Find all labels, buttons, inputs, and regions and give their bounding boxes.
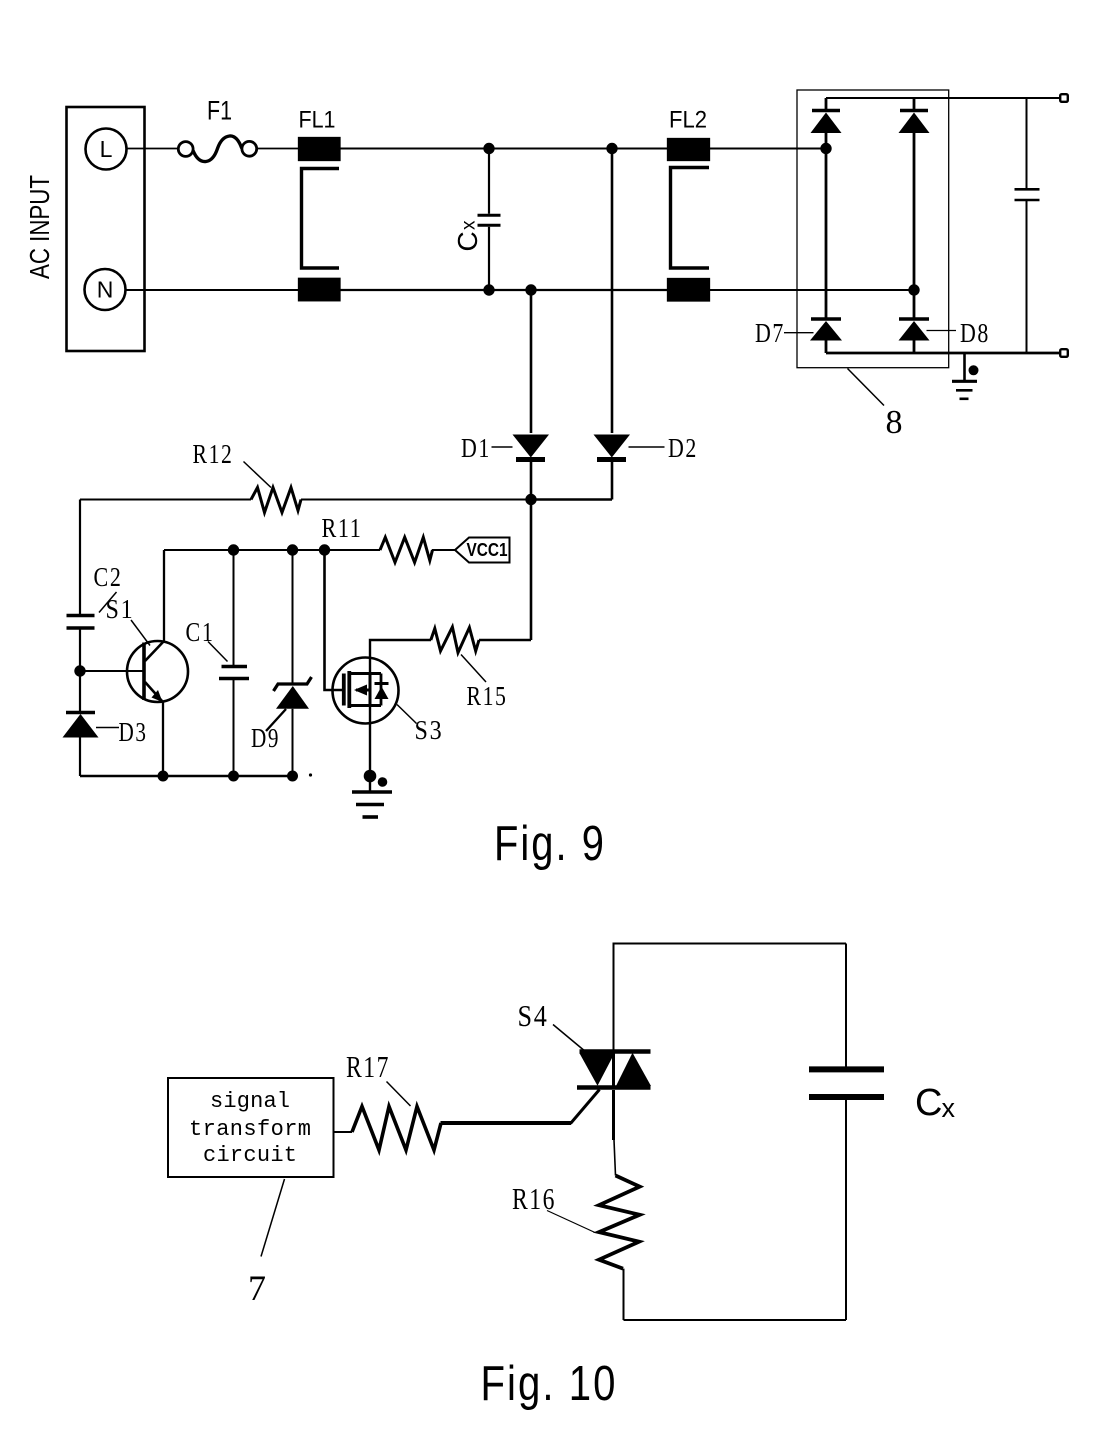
node: source dot <box>364 770 377 783</box>
svg-text:C2: C2 <box>94 562 123 592</box>
wire: S3 drain up and right to R15 <box>370 640 431 674</box>
wire: bridge top bus <box>826 97 1060 99</box>
svg-text:R11: R11 <box>322 513 363 543</box>
resistor R11 <box>322 513 457 562</box>
svg-text:S3: S3 <box>415 715 444 745</box>
svg-text:signal: signal <box>210 1089 290 1114</box>
node: D9 bottom <box>287 771 298 782</box>
wire: base lead to S1 <box>80 670 144 672</box>
wire: D1 branch vertical from N wire <box>530 290 533 433</box>
node: base junction on left column <box>74 665 85 676</box>
svg-text:D7: D7 <box>755 318 785 348</box>
terminal L <box>86 129 127 170</box>
wire: R16 down to bottom loop <box>623 1269 625 1320</box>
svg-text:C: C <box>915 1082 942 1124</box>
wire: bottom rail <box>80 775 293 777</box>
wire: VCC rail <box>164 549 380 551</box>
svg-text:D2: D2 <box>668 433 698 463</box>
capacitor Cx (fig 10) <box>809 944 956 1321</box>
diode D2 <box>594 433 699 500</box>
capacitor (bridge output) <box>1015 98 1040 353</box>
svg-text:x: x <box>459 220 480 230</box>
wire: junction down to R15 level <box>530 500 533 641</box>
svg-text:transform: transform <box>189 1117 311 1142</box>
svg-text:x: x <box>942 1093 956 1123</box>
svg-text:S4: S4 <box>518 998 549 1033</box>
node: C1 top <box>228 544 239 555</box>
bridge rectifier box 8 <box>797 90 949 368</box>
capacitor C2 <box>67 562 123 628</box>
diode D5 (bridge top-left) <box>811 98 842 319</box>
capacitor C1 <box>186 550 250 776</box>
node: N entry junction <box>908 284 919 295</box>
resistor R15 <box>431 627 531 711</box>
wire: left column top (R12 rail down to C2) <box>79 500 81 615</box>
wire L: FL1 to FL2 <box>340 148 669 150</box>
ground (bridge) <box>952 353 979 399</box>
terminal: output - <box>1060 349 1068 357</box>
zener D9 <box>251 550 312 776</box>
node: emitter bottom <box>158 771 169 782</box>
AC INPUT box <box>24 107 145 351</box>
wire: top loop <box>614 944 847 1051</box>
node: stray speck <box>309 773 312 776</box>
svg-text:8: 8 <box>886 404 905 441</box>
svg-text:VCC1: VCC1 <box>467 539 508 560</box>
node: Cx top junction <box>483 143 494 154</box>
filter FL2 <box>668 107 709 301</box>
wire: C2 to D3 <box>79 628 81 711</box>
svg-text:N: N <box>97 277 114 303</box>
wire: S1 emitter down to bottom rail <box>162 701 164 776</box>
svg-text:Fig. 9: Fig. 9 <box>494 817 606 871</box>
svg-text:circuit: circuit <box>203 1143 297 1168</box>
ground (S3 source) <box>352 792 392 817</box>
wire: S3 gate branch drop <box>325 550 343 690</box>
node: small dot right of source <box>378 777 388 787</box>
node: junction at R12 rail / D1 <box>525 494 536 505</box>
svg-text:AC INPUT: AC INPUT <box>24 175 55 279</box>
label 8 with leader <box>848 369 905 442</box>
svg-text:F1: F1 <box>207 96 232 126</box>
svg-text:D1: D1 <box>461 433 491 463</box>
node: D1 top junction on N wire <box>525 284 536 295</box>
node: S3 gate branch <box>319 544 330 555</box>
wire N: terminal to FL1 <box>126 289 300 291</box>
node: Cx bottom junction <box>483 284 494 295</box>
svg-text:S1: S1 <box>106 594 135 624</box>
wire: R17 to triac gate <box>441 1090 600 1124</box>
wire: S3 source down <box>369 706 371 792</box>
svg-text:R17: R17 <box>346 1049 390 1084</box>
node: C1 bottom <box>228 771 239 782</box>
wire: triac to R16 <box>614 1090 616 1176</box>
resistor R12 <box>80 439 531 513</box>
transistor S1 <box>106 594 189 702</box>
svg-text:L: L <box>100 136 113 162</box>
svg-text:C: C <box>452 231 483 251</box>
svg-text:FL2: FL2 <box>669 107 707 134</box>
svg-text:C1: C1 <box>186 617 215 647</box>
wire: bridge bottom bus <box>826 352 1060 355</box>
MOSFET S3 <box>333 658 444 746</box>
signal transform circuit box 7 <box>168 1078 334 1177</box>
wire N: FL1 to FL2 <box>340 289 669 291</box>
resistor R16 <box>512 1176 640 1269</box>
wire: D2 branch vertical from L wire <box>611 149 614 434</box>
filter FL1 <box>299 107 340 301</box>
svg-text:Fig. 10: Fig. 10 <box>481 1357 618 1411</box>
svg-text:D9: D9 <box>251 723 280 753</box>
svg-text:D8: D8 <box>960 318 990 348</box>
svg-text:R12: R12 <box>193 439 234 469</box>
diode D6 (bridge top-right) <box>899 98 930 319</box>
diode D3 <box>63 713 148 777</box>
svg-text:R16: R16 <box>512 1181 556 1216</box>
wire: bottom loop <box>624 1319 847 1321</box>
capacitor Cx (fig 9) <box>452 149 501 291</box>
wire: S1 collector up to VCC rail <box>163 550 165 642</box>
diode D8 <box>899 318 991 353</box>
svg-text:7: 7 <box>248 1268 268 1308</box>
wire fuse to FL1 <box>257 148 299 150</box>
triac S4 <box>518 998 652 1088</box>
terminal: output + <box>1060 94 1068 102</box>
diode D7 <box>755 318 842 353</box>
svg-text:R15: R15 <box>467 681 508 711</box>
svg-text:D3: D3 <box>119 717 148 747</box>
wire L terminal to fuse <box>127 148 179 150</box>
wire: D2 bottom to D1/R12 junction <box>531 498 612 501</box>
svg-text:FL1: FL1 <box>299 107 336 134</box>
net flag VCC1 <box>455 538 510 563</box>
node: D9 top <box>287 544 298 555</box>
label 7 with leader <box>248 1179 285 1308</box>
fuse F1 <box>178 96 256 162</box>
node: D2 top junction on L wire <box>606 143 617 154</box>
diode D1 <box>461 433 549 500</box>
terminal N <box>85 269 126 310</box>
node: L entry junction <box>820 143 831 154</box>
wire: FL2 to bridge (L) <box>709 148 826 150</box>
resistor R17 <box>334 1049 442 1150</box>
wire: FL2 to bridge (N) <box>709 289 914 291</box>
